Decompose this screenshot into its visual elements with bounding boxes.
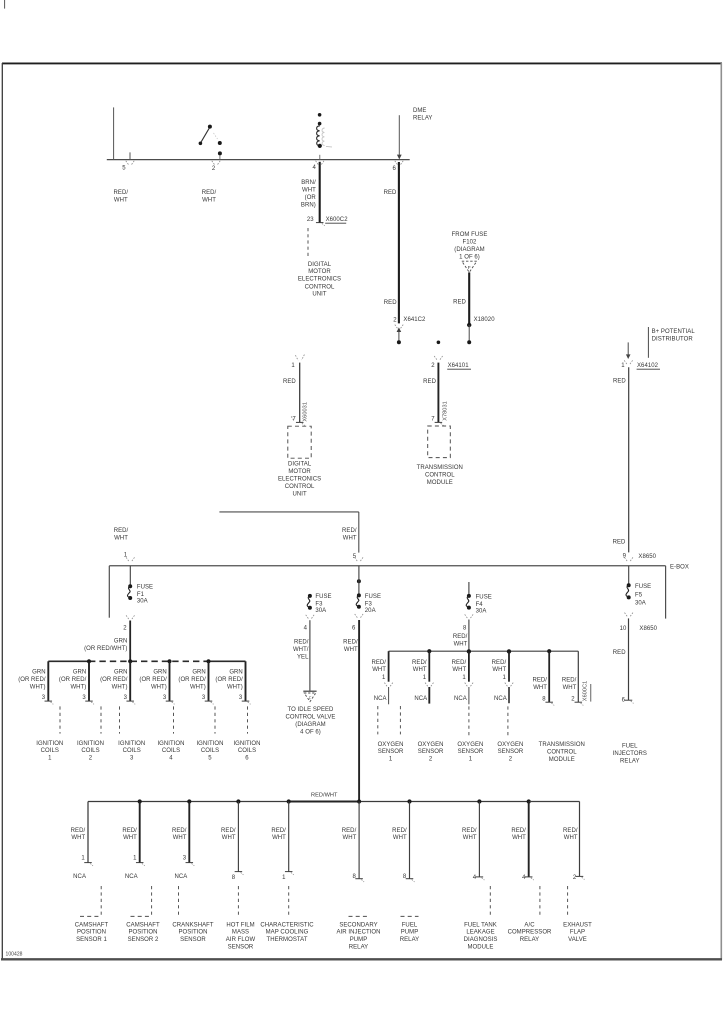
svg-text:10: 10 xyxy=(620,626,627,632)
svg-text:WHT: WHT xyxy=(114,198,128,204)
fuse F4 xyxy=(466,594,471,610)
svg-text:30A: 30A xyxy=(476,608,487,614)
svg-text:X600C2: X600C2 xyxy=(326,217,349,223)
svg-text:COILS: COILS xyxy=(41,748,59,754)
svg-text:FUSE: FUSE xyxy=(635,584,651,590)
svg-text:WHT: WHT xyxy=(452,667,466,673)
DME unit pin foot xyxy=(296,422,305,425)
relay pin 5 label xyxy=(122,166,126,172)
oxygen sensor 1b branch xyxy=(452,651,484,762)
svg-text:INJECTORS: INJECTORS xyxy=(613,751,647,757)
wire label RED (DME) xyxy=(283,379,296,385)
svg-text:COMPRESSOR: COMPRESSOR xyxy=(508,930,552,936)
svg-text:RED/: RED/ xyxy=(562,678,577,684)
TCM lower branch B xyxy=(562,651,583,705)
svg-text:1: 1 xyxy=(469,757,473,763)
svg-text:1: 1 xyxy=(389,757,393,763)
DME control unit label (mid) xyxy=(278,462,321,498)
svg-text:F3: F3 xyxy=(315,602,323,608)
svg-text:8: 8 xyxy=(542,697,546,703)
svg-text:4: 4 xyxy=(169,756,173,762)
wire label RED (pin6 top) xyxy=(384,190,397,196)
svg-text:COILS: COILS xyxy=(123,748,141,754)
transmission control module label (mid) xyxy=(417,465,463,486)
svg-text:WHT: WHT xyxy=(71,835,85,841)
svg-text:WHT: WHT xyxy=(302,188,316,194)
svg-text:(OR RED/WHT): (OR RED/WHT) xyxy=(84,646,127,652)
wire label RED/WHT pin5 xyxy=(114,190,129,203)
svg-text:CAMSHAFT: CAMSHAFT xyxy=(126,922,160,928)
svg-text:WHT: WHT xyxy=(533,685,547,691)
svg-text:RED/: RED/ xyxy=(122,828,137,834)
svg-text:(OR RED/: (OR RED/ xyxy=(59,677,87,683)
svg-text:IGNITION: IGNITION xyxy=(233,741,260,747)
svg-text:6: 6 xyxy=(393,166,397,172)
ignition coil 1 branch xyxy=(18,661,63,761)
svg-text:RED: RED xyxy=(613,379,626,385)
E-box right leg xyxy=(665,566,667,619)
svg-text:2: 2 xyxy=(123,626,127,632)
wire X8650 through E-box xyxy=(628,566,630,585)
svg-text:RED/: RED/ xyxy=(342,528,357,534)
wire label RED/WHT (pin8) xyxy=(453,634,468,647)
svg-text:CONTROL VALVE: CONTROL VALVE xyxy=(286,714,336,720)
svg-text:IGNITION: IGNITION xyxy=(157,741,184,747)
svg-text:F3: F3 xyxy=(365,602,373,608)
svg-text:20A: 20A xyxy=(365,608,376,614)
svg-text:GRN: GRN xyxy=(114,639,127,645)
E-box pin 5 label xyxy=(353,554,363,562)
svg-text:X64102: X64102 xyxy=(637,363,659,369)
svg-text:3: 3 xyxy=(124,695,128,701)
relay contact arm Q (pins 2) xyxy=(199,125,222,160)
svg-text:SENSOR 1: SENSOR 1 xyxy=(76,937,107,943)
svg-text:4: 4 xyxy=(473,875,477,881)
wire label RED/WHT pin2 xyxy=(202,190,217,203)
fuse F3 pin 4 label xyxy=(304,626,308,632)
svg-text:RED/: RED/ xyxy=(114,190,129,196)
wire pin4 to X60002 xyxy=(319,162,321,223)
pin 7 label (DME) xyxy=(291,416,296,422)
exhaust flap valve branch xyxy=(563,828,592,943)
hot film mass air flow sensor branch xyxy=(221,802,255,951)
svg-text:MODULE: MODULE xyxy=(549,757,575,763)
svg-text:SENSOR: SENSOR xyxy=(180,937,206,943)
wire label RED/WHT (pin1 E-box) xyxy=(114,528,129,542)
relay pin 6 label xyxy=(393,166,397,172)
wire F102 RED xyxy=(468,272,470,324)
svg-text:RED/: RED/ xyxy=(202,190,217,196)
svg-text:2: 2 xyxy=(431,363,435,369)
transmission control module label (lower) xyxy=(539,742,585,763)
svg-text:5: 5 xyxy=(353,554,357,560)
fuse F5 pin 10 X8650 xyxy=(620,626,658,632)
svg-text:1: 1 xyxy=(81,856,85,862)
svg-text:NCA: NCA xyxy=(454,696,467,702)
svg-text:CONTROL: CONTROL xyxy=(285,484,315,490)
svg-text:FUSE: FUSE xyxy=(476,594,492,600)
svg-text:FUSE: FUSE xyxy=(137,585,153,591)
svg-text:YEL: YEL xyxy=(297,654,309,660)
svg-text:RED/: RED/ xyxy=(342,828,357,834)
svg-text:VALVE: VALVE xyxy=(568,937,587,943)
svg-text:ELECTRONICS: ELECTRONICS xyxy=(298,277,341,283)
fuse F3 left xyxy=(307,594,312,610)
svg-text:NCA: NCA xyxy=(494,696,507,702)
svg-text:X60031: X60031 xyxy=(303,402,309,422)
svg-text:F5: F5 xyxy=(635,592,643,598)
ignition coil 6 branch xyxy=(215,661,260,761)
svg-text:1: 1 xyxy=(382,675,386,681)
pin 7 label (TCM) xyxy=(431,417,435,423)
svg-text:WHT): WHT) xyxy=(190,684,206,690)
svg-text:WHT: WHT xyxy=(393,835,407,841)
svg-text:RED/: RED/ xyxy=(172,828,187,834)
DME RELAY label xyxy=(413,108,432,122)
svg-text:30A: 30A xyxy=(315,608,326,614)
svg-text:MAP COOLING: MAP COOLING xyxy=(266,930,309,936)
svg-text:RELAY: RELAY xyxy=(620,759,639,765)
svg-text:RED/: RED/ xyxy=(462,828,477,834)
svg-text:MOTOR: MOTOR xyxy=(308,269,331,275)
E-box pin 9 connector X8650 xyxy=(623,553,657,561)
fuse F3 left label xyxy=(315,594,331,614)
svg-text:MOTOR: MOTOR xyxy=(288,469,311,475)
E-box left leg xyxy=(108,566,110,618)
oxygen bus bar xyxy=(389,650,579,652)
svg-text:X8650: X8650 xyxy=(639,626,657,632)
svg-text:E-BOX: E-BOX xyxy=(670,565,689,571)
svg-text:8: 8 xyxy=(232,875,236,881)
wire to idle speed valve xyxy=(309,620,311,690)
relay pin 6 connector xyxy=(395,161,403,165)
pin 1 label (DME) xyxy=(291,363,295,369)
svg-text:6: 6 xyxy=(352,626,356,632)
svg-text:POSITION: POSITION xyxy=(178,930,207,936)
svg-text:3: 3 xyxy=(202,695,206,701)
svg-text:RED/: RED/ xyxy=(532,678,547,684)
sheet number 100428 xyxy=(6,952,23,958)
svg-text:WHT: WHT xyxy=(564,835,578,841)
svg-text:WHT): WHT) xyxy=(30,684,46,690)
svg-text:AIR INJECTION: AIR INJECTION xyxy=(337,930,381,936)
svg-text:BRN/: BRN/ xyxy=(301,180,316,186)
svg-text:RED/: RED/ xyxy=(511,828,526,834)
svg-text:SENSOR: SENSOR xyxy=(228,944,254,950)
ignition coil 4 branch xyxy=(139,661,184,761)
svg-text:RELAY: RELAY xyxy=(413,116,432,122)
junction node dot xyxy=(437,341,441,345)
svg-text:OXYGEN: OXYGEN xyxy=(418,742,444,748)
svg-text:FUEL: FUEL xyxy=(402,922,418,928)
oxygen bus junction dots xyxy=(427,649,551,654)
svg-text:IGNITION: IGNITION xyxy=(118,741,145,747)
E-box bus bar xyxy=(109,565,665,567)
relay pin 2 connector xyxy=(212,161,220,165)
svg-text:WHT: WHT xyxy=(123,835,137,841)
svg-text:WHT): WHT) xyxy=(112,684,128,690)
svg-text:(OR RED/: (OR RED/ xyxy=(100,677,128,683)
relay pin 4 tick xyxy=(316,155,324,165)
svg-text:1: 1 xyxy=(282,875,286,881)
svg-text:FUEL: FUEL xyxy=(622,743,638,749)
ignition coil 2 branch xyxy=(59,661,104,761)
border frame bottom xyxy=(1,958,722,960)
svg-text:NCA: NCA xyxy=(414,696,427,702)
fuel injectors relay pin 6 xyxy=(622,697,634,703)
wire arrow up to X641C2 xyxy=(397,327,402,344)
wire from DME relay label xyxy=(397,115,402,159)
svg-text:2: 2 xyxy=(212,166,216,172)
svg-text:GRN: GRN xyxy=(32,669,45,675)
relay coil K1 xyxy=(317,113,322,148)
wire label RED (pin9 E-box) xyxy=(613,540,626,546)
svg-text:A/C: A/C xyxy=(524,922,535,928)
wire pin6 RED xyxy=(398,162,400,323)
svg-text:WHT: WHT xyxy=(563,685,577,691)
DME control unit dashed box xyxy=(288,426,311,458)
svg-text:DISTRIBUTOR: DISTRIBUTOR xyxy=(652,337,694,343)
svg-text:1: 1 xyxy=(462,675,466,681)
connector X64102 pin 1 xyxy=(621,360,660,369)
svg-text:POSITION: POSITION xyxy=(128,930,157,936)
fuse F3 right out connector xyxy=(355,614,363,618)
svg-text:RED: RED xyxy=(453,300,466,306)
relay pin 2 label xyxy=(212,166,216,172)
wire RED to TCM xyxy=(437,363,439,423)
border frame top xyxy=(2,62,722,64)
svg-text:X641C2: X641C2 xyxy=(403,317,426,323)
svg-text:WHT: WHT xyxy=(372,667,386,673)
svg-text:NCA: NCA xyxy=(125,874,138,880)
relay pin 4 label xyxy=(313,165,317,171)
svg-text:WHT: WHT xyxy=(463,835,477,841)
fuse F1 out connector xyxy=(126,615,134,619)
svg-text:RED: RED xyxy=(384,190,397,196)
svg-text:WHT/: WHT/ xyxy=(293,647,309,653)
svg-text:RED: RED xyxy=(613,650,626,656)
svg-text:CRANKSHAFT: CRANKSHAFT xyxy=(172,922,213,928)
E-BOX label xyxy=(670,565,689,571)
svg-text:OXYGEN: OXYGEN xyxy=(457,742,483,748)
svg-text:1: 1 xyxy=(124,553,128,559)
svg-text:30A: 30A xyxy=(137,598,148,604)
svg-text:WHT: WHT xyxy=(413,667,427,673)
fuel pump relay branch xyxy=(392,802,419,944)
svg-text:8: 8 xyxy=(463,625,467,631)
svg-text:1 OF 6): 1 OF 6) xyxy=(459,254,480,260)
DME relay bus bar xyxy=(107,159,410,161)
B+ potential distributor label xyxy=(652,329,696,343)
svg-text:GRN: GRN xyxy=(192,669,205,675)
fuel injectors relay K6 label xyxy=(613,743,647,764)
svg-text:NCA: NCA xyxy=(73,874,86,880)
a/c compressor relay branch xyxy=(508,802,552,944)
off-page triangle F xyxy=(462,261,477,272)
svg-text:X18020: X18020 xyxy=(474,317,496,323)
fuse F5 out connector xyxy=(625,613,633,617)
svg-text:FUEL TANK: FUEL TANK xyxy=(464,922,497,928)
svg-text:BRN): BRN) xyxy=(301,203,316,209)
TCM lower branch A xyxy=(532,651,554,705)
svg-text:GRN: GRN xyxy=(153,669,166,675)
svg-text:WHT: WHT xyxy=(343,536,357,542)
svg-text:CONTROL: CONTROL xyxy=(305,284,335,290)
svg-text:6: 6 xyxy=(245,756,249,762)
svg-text:MODULE: MODULE xyxy=(468,944,494,950)
DME control unit label (top) xyxy=(298,262,341,298)
svg-text:RED/: RED/ xyxy=(343,639,358,645)
bottom bus bar xyxy=(88,801,580,803)
svg-text:RED/: RED/ xyxy=(392,828,407,834)
ignition coil 5 branch xyxy=(178,661,223,761)
svg-text:3: 3 xyxy=(130,756,134,762)
wire label RED (TCM) xyxy=(423,379,436,385)
ignition coil bus solid ends xyxy=(48,660,245,662)
arrow down from B+ distributor xyxy=(626,342,631,359)
svg-text:UNIT: UNIT xyxy=(312,292,326,298)
wire label RED (injectors) xyxy=(613,650,626,656)
svg-text:3: 3 xyxy=(163,695,167,701)
svg-text:CAMSHAFT: CAMSHAFT xyxy=(75,922,109,928)
dashed lead to DME unit xyxy=(307,228,309,256)
svg-text:FROM FUSE: FROM FUSE xyxy=(452,232,488,238)
idle speed valve off-page symbol xyxy=(303,691,316,701)
svg-text:TRANSMISSION: TRANSMISSION xyxy=(539,742,585,748)
junction dot below pin 5 xyxy=(357,566,361,596)
wire fuse F1 to coil bus xyxy=(129,621,131,662)
svg-text:2: 2 xyxy=(573,875,577,881)
svg-text:MASS: MASS xyxy=(232,930,249,936)
svg-text:F: F xyxy=(468,265,471,271)
svg-text:2: 2 xyxy=(393,318,397,324)
svg-text:SENSOR: SENSOR xyxy=(378,749,404,755)
svg-text:23: 23 xyxy=(307,217,314,223)
svg-text:3: 3 xyxy=(183,856,187,862)
ignition bus junction dots xyxy=(87,659,211,663)
corner tick top-left xyxy=(4,0,6,9)
connector marks above pin 1 (DME) xyxy=(295,355,304,361)
svg-text:3: 3 xyxy=(42,695,46,701)
svg-text:TRANSMISSION: TRANSMISSION xyxy=(417,465,463,471)
svg-text:X78031: X78031 xyxy=(442,401,448,421)
svg-text:X64101: X64101 xyxy=(448,363,470,369)
svg-text:NCA: NCA xyxy=(374,696,387,702)
secondary air injection pump relay branch xyxy=(337,802,381,951)
svg-text:SENSOR: SENSOR xyxy=(418,749,444,755)
svg-text:PUMP: PUMP xyxy=(350,937,368,943)
svg-text:CONTROL: CONTROL xyxy=(425,472,455,478)
connector X641C2 pin 2 xyxy=(393,317,426,329)
bottom bus label RED/WHT xyxy=(311,792,338,798)
svg-text:IGNITION: IGNITION xyxy=(36,741,63,747)
svg-text:MODULE: MODULE xyxy=(427,480,453,486)
fuse F5 xyxy=(626,583,631,599)
TCM pin foot xyxy=(435,422,444,425)
svg-text:FUSE: FUSE xyxy=(315,594,331,600)
svg-text:WHT): WHT) xyxy=(151,684,167,690)
svg-text:RED/WHT: RED/WHT xyxy=(311,792,338,798)
svg-text:HOT FILM: HOT FILM xyxy=(226,922,254,928)
svg-text:1: 1 xyxy=(503,675,507,681)
relay left leg wire xyxy=(113,107,115,159)
ignition coil bus dashed xyxy=(89,660,209,662)
svg-text:IGNITION: IGNITION xyxy=(77,741,104,747)
svg-text:COILS: COILS xyxy=(162,748,180,754)
horizontal wire to E-box pin 5 xyxy=(219,512,358,553)
svg-text:RED/: RED/ xyxy=(114,528,129,534)
svg-text:WHT: WHT xyxy=(342,835,356,841)
connector label X60031 rotated xyxy=(303,402,309,422)
svg-text:WHT: WHT xyxy=(512,835,526,841)
svg-text:OXYGEN: OXYGEN xyxy=(378,742,404,748)
svg-text:RED/: RED/ xyxy=(221,828,236,834)
svg-text:FLAP: FLAP xyxy=(570,930,585,936)
svg-text:WHT: WHT xyxy=(272,835,286,841)
svg-text:F: F xyxy=(309,695,312,700)
camshaft position sensor 2 branch xyxy=(122,802,160,944)
svg-text:RED: RED xyxy=(423,379,436,385)
svg-text:RED/: RED/ xyxy=(71,828,86,834)
svg-text:2: 2 xyxy=(429,757,433,763)
wire label RED/WHT (pin5 E-box) xyxy=(342,528,357,542)
svg-text:TO IDLE SPEED: TO IDLE SPEED xyxy=(288,707,335,713)
bottom bus right branch to exhaust valve xyxy=(529,802,580,877)
fuse F1 pin 2 label xyxy=(123,626,127,632)
svg-text:1: 1 xyxy=(423,675,427,681)
fuse F4 label xyxy=(476,594,492,614)
svg-text:WHT): WHT) xyxy=(227,684,243,690)
svg-text:(OR RED/: (OR RED/ xyxy=(139,677,167,683)
svg-text:3: 3 xyxy=(82,695,86,701)
svg-text:SENSOR: SENSOR xyxy=(498,749,524,755)
svg-text:IGNITION: IGNITION xyxy=(196,741,223,747)
fuse F1 label xyxy=(137,585,153,605)
oxygen sensor 2b branch xyxy=(492,651,524,762)
svg-text:GRN: GRN xyxy=(229,669,242,675)
svg-text:3: 3 xyxy=(239,695,243,701)
svg-text:RED/: RED/ xyxy=(371,660,386,666)
connector label X600C1 rotated xyxy=(583,681,591,702)
wire X18020 to junction xyxy=(467,325,471,344)
crankshaft position sensor branch xyxy=(172,802,214,944)
camshaft position sensor 1 branch xyxy=(71,802,109,944)
svg-text:THERMOSTAT: THERMOSTAT xyxy=(267,937,308,943)
fuse F1 xyxy=(127,584,132,600)
wire label RED (pin6 bottom) xyxy=(384,300,397,306)
relay contact ghost marks xyxy=(214,133,218,139)
svg-text:RED: RED xyxy=(384,300,397,306)
svg-text:7: 7 xyxy=(431,417,435,423)
svg-text:DIGITAL: DIGITAL xyxy=(288,462,312,468)
fuse F4 out connector xyxy=(465,614,473,618)
svg-text:EXHAUST: EXHAUST xyxy=(563,922,592,928)
svg-text:PUMP: PUMP xyxy=(401,930,419,936)
svg-text:1: 1 xyxy=(48,756,52,762)
wire fuse F3 to bottom bus xyxy=(358,620,360,802)
svg-text:F102: F102 xyxy=(463,240,477,246)
svg-text:RED: RED xyxy=(283,379,296,385)
svg-text:WHT: WHT xyxy=(454,641,468,647)
svg-text:SECONDARY: SECONDARY xyxy=(339,922,377,928)
border frame left xyxy=(1,63,3,960)
wire RED to DME unit xyxy=(299,363,301,423)
fuse F3 out connector xyxy=(306,615,314,619)
svg-text:WHT: WHT xyxy=(114,536,128,542)
svg-text:X8650: X8650 xyxy=(638,554,656,560)
bottom bus junction dots xyxy=(138,799,531,803)
svg-text:AIR FLOW: AIR FLOW xyxy=(226,937,256,943)
